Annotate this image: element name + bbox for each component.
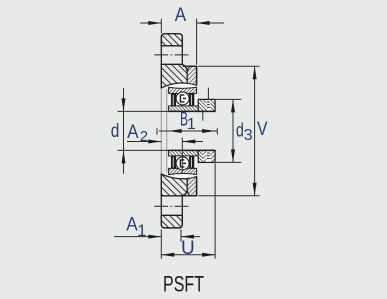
set screw axis	[207, 88, 209, 99]
dim A: dimension line + arrows	[140, 22, 161, 24]
svg-text:A: A	[127, 122, 139, 143]
dim V: dimension line + arrows	[254, 66, 256, 196]
svg-text:3: 3	[244, 127, 253, 144]
bearing upper: inner ring	[169, 106, 199, 112]
collar recess edge	[202, 112, 204, 121]
housing bore edge arc	[161, 174, 196, 179]
spherical seat seam	[161, 83, 196, 89]
bore edge upper	[169, 110, 216, 112]
dim A2: dimension line + arrows	[127, 141, 161, 143]
svg-text:V: V	[257, 119, 268, 140]
bearing upper: set screw slot	[207, 100, 211, 111]
svg-text:A: A	[126, 215, 138, 236]
housing top edge	[183, 65, 197, 67]
bearing lower: locking collar	[198, 150, 203, 162]
bearing upper: white metal base	[169, 87, 197, 112]
bearing lower: ball	[176, 157, 189, 170]
flange lower wedge (hatched section)	[161, 174, 187, 196]
dim U: right extension line	[214, 163, 216, 258]
hidden edge (housing bore)	[166, 90, 168, 173]
housing upper pocket (behind, offset section)	[187, 66, 196, 85]
bearing upper: ball	[176, 92, 189, 105]
bearing lower: set screw slot	[207, 151, 211, 162]
dim A: extension lines	[160, 19, 162, 34]
dim V: extension lines	[198, 65, 260, 67]
dim d3: extension lines	[216, 98, 241, 100]
dim A1: extension lines	[160, 229, 162, 258]
housing bore edge arc	[161, 83, 196, 88]
svg-text:1: 1	[137, 222, 146, 240]
dim B1: dimension line + arrows	[159, 130, 217, 132]
dim d: extension lines	[118, 110, 169, 112]
dim U: dimension line + arrows	[161, 254, 215, 256]
svg-text:1: 1	[187, 116, 196, 133]
hidden edge (flange hole)	[160, 88, 162, 174]
bearing upper: raceway shoulders	[171, 93, 176, 106]
svg-text:A: A	[175, 5, 187, 26]
bolt hole centerline top	[154, 54, 189, 56]
flange upper wedge (hatched section)	[161, 64, 187, 88]
bearing lower: raceway shoulders	[171, 156, 176, 169]
flange right edge (bottom gap)	[181, 196, 183, 216]
bearing lower: cage section mark	[180, 160, 186, 167]
bolt hole centerline bottom	[154, 205, 189, 207]
svg-text:d: d	[236, 120, 244, 141]
bore edge lower	[169, 149, 216, 151]
bearing upper: cage section mark	[180, 95, 186, 102]
dim d3: dimension line + arrows	[232, 99, 234, 162]
svg-text:U: U	[181, 238, 195, 259]
dim d: dimension line + arrows	[123, 88, 125, 174]
bearing upper: outer ring	[169, 87, 197, 95]
bearing lower: white metal base	[169, 150, 197, 175]
bearing lower: inner ring	[169, 150, 199, 156]
flange top block (section through bolt hole)	[161, 34, 182, 46]
bearing upper: locking collar	[198, 99, 215, 111]
svg-text:d: d	[111, 121, 120, 142]
housing bottom edge	[181, 195, 196, 197]
housing lower pocket	[187, 177, 196, 196]
svg-text:PSFT: PSFT	[163, 272, 204, 297]
bearing lower: outer ring	[169, 166, 197, 174]
housing back face	[196, 66, 198, 85]
svg-text:2: 2	[140, 128, 148, 145]
flange bottom block	[161, 215, 182, 228]
dim A2: extension line through lower bearing	[181, 138, 183, 174]
dim A1: dimension line + arrows	[114, 236, 161, 238]
flange left edge (bottom gap)	[160, 196, 162, 216]
spherical seat seam	[161, 173, 196, 179]
flange left edge (top gap)	[160, 46, 162, 65]
flange right edge (top gap)	[181, 46, 183, 65]
